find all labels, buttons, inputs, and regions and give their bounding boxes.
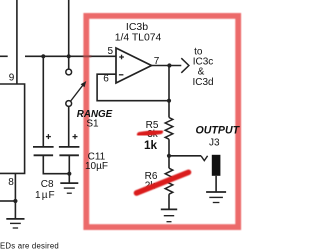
svg-text:EDs are desired: EDs are desired xyxy=(0,242,59,250)
pin 6 label xyxy=(103,74,109,85)
wire main horizontal net (left stub) xyxy=(0,55,8,57)
C11 label xyxy=(88,152,106,163)
op-amp minus input mark xyxy=(119,74,124,76)
C8 plus sign xyxy=(46,134,51,139)
junction dot feedback node xyxy=(167,99,171,103)
pin 7 label xyxy=(154,56,160,67)
svg-text:C8: C8 xyxy=(41,179,54,190)
svg-text:6: 6 xyxy=(103,74,109,85)
R6 old value 2k (crossed out) xyxy=(145,181,157,192)
wire C8 bottom lead xyxy=(43,155,69,173)
capacitor C11 xyxy=(59,147,80,155)
capacitor C8 xyxy=(33,147,54,155)
svg-text:1/4 TL074: 1/4 TL074 xyxy=(115,33,162,44)
ground (C11/C8) xyxy=(60,183,78,193)
svg-text:10µF: 10µF xyxy=(85,161,108,172)
svg-text:5: 5 xyxy=(108,46,114,57)
red highlight rectangle xyxy=(83,16,238,227)
svg-text:IC3d: IC3d xyxy=(192,77,213,88)
junction dot C8/C11 xyxy=(67,172,71,176)
svg-text:9: 9 xyxy=(9,73,15,84)
junction pin8 wire xyxy=(13,199,17,203)
wire J3 to ground xyxy=(215,176,217,192)
jack J3 plug body xyxy=(212,155,221,176)
S1 label xyxy=(86,119,99,130)
to IC3c & IC3d label xyxy=(192,46,213,88)
1/4 TL074 label xyxy=(115,33,162,44)
R6 red deletion slash xyxy=(137,172,189,193)
junction dot output pin 7 xyxy=(167,63,171,67)
wire pin 8 to ground xyxy=(0,173,15,219)
svg-text:S1: S1 xyxy=(86,119,99,130)
svg-text:8: 8 xyxy=(8,177,14,188)
J3 label xyxy=(209,138,220,149)
svg-text:J3: J3 xyxy=(209,138,220,149)
switch S1 lower contact xyxy=(66,101,72,107)
wire R6 to ground xyxy=(168,194,170,209)
IC box (partial, off left edge) xyxy=(0,84,25,173)
svg-text:1µF: 1µF xyxy=(35,190,56,201)
svg-text:&: & xyxy=(198,67,205,78)
svg-text:1k: 1k xyxy=(144,138,158,152)
op-amp plus input mark xyxy=(119,55,124,60)
wire main horizontal net to op-amp pin 5 xyxy=(25,55,116,57)
ground (J3) xyxy=(206,192,226,203)
R5 red strike mark xyxy=(140,132,161,135)
IC3b label xyxy=(126,21,148,33)
C11 plus sign xyxy=(73,134,78,139)
switch S1 arm with arrowhead xyxy=(71,81,87,101)
J3 tip contact chevron xyxy=(201,156,208,161)
arrow to IC3c and IC3d xyxy=(181,58,189,73)
C8 value 1uF xyxy=(35,190,56,201)
junction dot at x=68.7 on main wire xyxy=(67,54,71,58)
wire C8 top lead xyxy=(42,56,44,147)
pin 8 label xyxy=(8,177,14,188)
C11 value 10uF xyxy=(85,161,108,172)
wire C11 bottom lead to ground xyxy=(68,155,70,183)
pin 9 label xyxy=(9,73,15,84)
R5 old value 3k (crossed out) xyxy=(147,129,159,140)
wire tap to jack J3 xyxy=(169,155,201,157)
resistor R5 xyxy=(165,118,173,140)
R5 new value 1k xyxy=(144,138,158,152)
ground (pin 8) xyxy=(6,219,24,228)
wire R5 to R6 xyxy=(168,139,170,168)
op-amp U IC3b triangle xyxy=(116,48,152,83)
R6 label xyxy=(145,171,158,182)
switch S1 upper contact xyxy=(66,69,72,75)
wire op-amp output xyxy=(151,65,181,67)
ground (R6) xyxy=(161,209,177,221)
C8 label xyxy=(41,179,54,190)
OUTPUT label xyxy=(196,125,241,137)
wire output vertical to R5 xyxy=(168,66,170,118)
junction dot at x=43.3 on main wire xyxy=(41,54,45,58)
RANGE label xyxy=(77,109,113,120)
wire vertical to switch S1 top contact xyxy=(68,0,70,69)
resistor R6 xyxy=(165,168,173,194)
wire pin 6 feedback to output node xyxy=(97,74,169,101)
junction dot output tap xyxy=(167,154,171,158)
R5 label xyxy=(146,120,159,131)
svg-text:OUTPUT: OUTPUT xyxy=(196,125,241,137)
svg-text:IC3b: IC3b xyxy=(126,21,148,33)
wire vertical into pin 9 xyxy=(16,0,18,84)
wire C11 top lead from switch xyxy=(68,106,70,146)
caption fragment bottom left xyxy=(0,242,59,250)
pin 5 label xyxy=(108,46,114,57)
